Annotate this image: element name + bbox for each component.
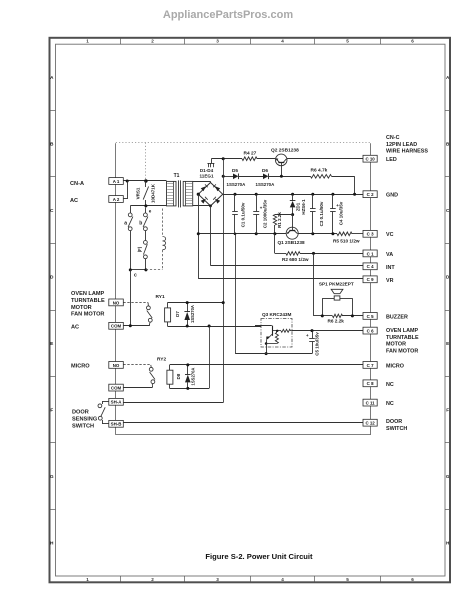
svg-text:A: A	[50, 75, 54, 80]
svg-text:SENSING: SENSING	[72, 417, 97, 423]
svg-text:F: F	[50, 407, 53, 412]
node buzzer right	[351, 314, 354, 317]
svg-text:C 8: C 8	[367, 381, 374, 386]
wire Q2 to C10	[287, 158, 363, 160]
wire primary return	[130, 205, 166, 207]
svg-text:(F): (F)	[137, 246, 142, 252]
transistor Q3 internals	[255, 325, 272, 327]
wire bridge left drop	[198, 194, 200, 279]
svg-text:C 6: C 6	[367, 329, 374, 334]
svg-text:WIRE HARNESS: WIRE HARNESS	[386, 149, 428, 155]
pin C9	[363, 276, 377, 283]
transformer T1 primary winding	[167, 181, 177, 206]
svg-text:C5 10u/35v: C5 10u/35v	[314, 332, 319, 356]
node buzzer left	[321, 314, 324, 317]
svg-text:3: 3	[216, 577, 219, 582]
wire GND rail	[223, 194, 363, 196]
wire D5 D6 line	[223, 176, 233, 178]
node RY1 bottom link	[208, 325, 211, 328]
svg-text:12PIN LEAD: 12PIN LEAD	[386, 142, 417, 148]
wire R6 to GND rail	[332, 176, 355, 178]
wire emitter return	[235, 353, 312, 355]
svg-text:4: 4	[281, 39, 284, 44]
interlock contact F	[144, 241, 148, 245]
node D7 bottom	[186, 325, 189, 328]
left connector body line CN-A/CN-B	[115, 143, 117, 435]
dotted stub to VRS1 node	[145, 143, 147, 181]
wire VC line	[198, 233, 337, 235]
svg-text:C 5: C 5	[367, 314, 374, 319]
dotted lead line top	[116, 142, 371, 144]
svg-text:6: 6	[411, 577, 414, 582]
node C3 bottom	[311, 232, 314, 235]
svg-text:H: H	[50, 540, 54, 545]
svg-text:TURNTABLE: TURNTABLE	[386, 335, 419, 341]
relay RY2 switch	[150, 365, 152, 367]
wire c junction	[130, 269, 146, 271]
svg-text:T1: T1	[174, 173, 180, 179]
svg-text:E: E	[446, 341, 449, 346]
svg-text:CN-C: CN-C	[386, 135, 400, 141]
resistor R5	[337, 232, 352, 236]
node D8 bottom	[186, 387, 189, 390]
pin C3	[363, 230, 377, 237]
capacitor C3	[312, 194, 314, 209]
svg-text:SWITCH: SWITCH	[72, 424, 94, 430]
svg-text:FAN MOTOR: FAN MOTOR	[71, 312, 104, 318]
node VC left	[197, 232, 200, 235]
svg-text:RY1: RY1	[156, 294, 165, 300]
relay RY2 coil	[167, 370, 173, 384]
wire RY2 coil top line to C7	[170, 364, 363, 366]
resistor R1 2.2k	[273, 215, 276, 226]
svg-text:BUZZER: BUZZER	[386, 314, 408, 320]
svg-text:OVEN LAMP: OVEN LAMP	[386, 328, 418, 334]
svg-text:NO: NO	[113, 300, 120, 305]
svg-text:E: E	[50, 341, 53, 346]
svg-text:c: c	[134, 273, 137, 279]
diode D7	[187, 303, 189, 312]
svg-text:5: 5	[346, 39, 349, 44]
transistor Q1	[286, 227, 298, 239]
node emitter junction	[265, 352, 268, 355]
svg-text:ZD1: ZD1	[295, 202, 300, 211]
svg-text:2: 2	[151, 39, 154, 44]
svg-text:AppliancePartsPros.com: AppliancePartsPros.com	[163, 9, 293, 21]
svg-text:10D471K: 10D471K	[151, 183, 156, 203]
zone boundary tick marks	[120, 38, 122, 44]
node buzzer tap	[312, 252, 315, 255]
capacitor C5	[312, 331, 314, 339]
wire VA line	[275, 253, 286, 255]
svg-text:COM: COM	[111, 386, 122, 391]
resistor R6 4.7k	[311, 175, 332, 179]
svg-text:C 3: C 3	[367, 232, 374, 237]
resistor R6 2.2k	[333, 314, 343, 317]
wire RY2 coil bottom line	[170, 388, 210, 390]
svg-text:SWITCH: SWITCH	[386, 426, 407, 432]
svg-text:5: 5	[346, 577, 349, 582]
wire RY1 to RY2 link	[209, 326, 211, 388]
wire A2 link	[123, 198, 127, 200]
wire C6 line	[292, 330, 363, 332]
inner border frame	[56, 44, 446, 576]
node LED line junction	[222, 157, 225, 160]
svg-text:C 7: C 7	[367, 363, 374, 368]
diode D8	[187, 365, 189, 374]
svg-text:6: 6	[411, 39, 414, 44]
svg-text:1SS270A: 1SS270A	[227, 182, 247, 187]
node D8 top	[186, 363, 189, 366]
svg-text:HZS6-1: HZS6-1	[301, 199, 306, 215]
node ZD1 bottom	[291, 213, 294, 216]
wire Q2 base drop	[281, 166, 283, 177]
bridge diode D1	[201, 186, 206, 191]
pin C8	[363, 380, 377, 387]
svg-text:TURNTABLE: TURNTABLE	[71, 298, 105, 304]
bridge diode D3	[201, 199, 206, 204]
node varistor bottom	[144, 204, 147, 207]
wire COM2 line	[123, 387, 152, 389]
svg-text:FAN MOTOR: FAN MOTOR	[386, 349, 418, 355]
zener ZD1	[292, 194, 294, 200]
svg-text:R1 2.2k: R1 2.2k	[277, 212, 282, 228]
svg-text:D6: D6	[262, 168, 268, 173]
svg-text:e: e	[149, 209, 152, 214]
wire switch a to COM	[130, 270, 132, 326]
wire buzzer loop	[322, 298, 334, 300]
node VRS1 top junction	[144, 179, 147, 182]
svg-text:NC: NC	[386, 401, 394, 407]
svg-text:1: 1	[86, 39, 89, 44]
wire VR line	[198, 278, 363, 280]
capacitor C1	[234, 194, 236, 211]
node Q2 base junction	[280, 175, 283, 178]
terminal COM lower	[109, 384, 124, 391]
svg-text:CN-A: CN-A	[70, 181, 84, 187]
svg-text:G: G	[50, 474, 54, 479]
svg-text:D7: D7	[175, 311, 180, 317]
relay RY1 switch	[147, 302, 149, 306]
resistor R4	[242, 157, 257, 161]
node bridge bottom	[209, 205, 212, 208]
svg-text:C: C	[50, 208, 54, 213]
svg-text:4: 4	[281, 577, 284, 582]
relay coil L1	[163, 237, 166, 250]
terminal SH-B	[109, 420, 124, 427]
terminal A2	[109, 196, 124, 203]
wire SH-A line	[123, 402, 223, 404]
wire LED line	[211, 158, 242, 160]
wire Q3 emitter out	[266, 344, 268, 354]
svg-text:LED: LED	[386, 157, 397, 163]
right connector body line CN-C	[370, 143, 372, 419]
pin C11	[363, 399, 377, 406]
svg-text:+: +	[306, 333, 309, 338]
svg-text:C 1: C 1	[367, 251, 374, 256]
svg-text:C 4: C 4	[367, 264, 374, 269]
wire SH-B line to C12	[123, 422, 363, 424]
svg-text:RY2: RY2	[157, 357, 166, 363]
svg-text:Q2 2SB1238: Q2 2SB1238	[271, 148, 299, 154]
buzzer SP1	[331, 289, 343, 293]
node C5 top	[311, 329, 314, 332]
wire RY1 coil top line	[167, 302, 223, 304]
svg-text:AC: AC	[70, 198, 78, 204]
svg-text:NC: NC	[386, 382, 394, 388]
terminal NO lower	[109, 362, 124, 369]
wire INT line	[211, 265, 363, 267]
wire buzzer drop	[313, 253, 315, 316]
svg-text:b: b	[139, 221, 142, 227]
pin C1	[363, 250, 377, 257]
pin C12	[363, 419, 377, 426]
svg-text:VR: VR	[386, 278, 394, 284]
svg-text:R2 680 1/2w: R2 680 1/2w	[282, 257, 309, 262]
svg-text:C 11: C 11	[366, 401, 376, 406]
wire bridge top to tap	[211, 159, 213, 164]
wire RY1 coil bottom line	[167, 326, 261, 328]
svg-text:GND: GND	[386, 193, 398, 199]
svg-text:D1-D4: D1-D4	[200, 168, 214, 173]
svg-text:COM: COM	[111, 324, 122, 329]
wire NO1 to RY1 switch	[123, 302, 148, 304]
wire bottom loop	[116, 434, 371, 436]
svg-text:A 1: A 1	[113, 179, 120, 184]
svg-text:D5: D5	[232, 168, 238, 173]
svg-text:NO: NO	[113, 363, 120, 368]
wire A1 to transformer primary	[123, 180, 166, 182]
svg-text:F: F	[446, 407, 449, 412]
svg-text:Q3 KRC243M: Q3 KRC243M	[262, 312, 292, 317]
svg-text:C1 0.1u/50v: C1 0.1u/50v	[240, 202, 245, 227]
svg-text:2: 2	[151, 577, 154, 582]
svg-text:C4 10u/35v: C4 10u/35v	[339, 201, 344, 225]
capacitor C2	[256, 194, 258, 211]
pin C7	[363, 362, 377, 369]
svg-text:C 2: C 2	[367, 192, 374, 197]
door sensing switch	[102, 401, 109, 403]
pin C6	[363, 327, 377, 334]
bridge diode D2	[215, 186, 220, 191]
svg-text:C 10: C 10	[365, 157, 375, 162]
transformer T1 secondary winding	[183, 181, 193, 206]
pin C10	[363, 155, 377, 162]
svg-text:1SS270A: 1SS270A	[190, 305, 195, 323]
node COM1 junction	[129, 324, 132, 327]
svg-text:G: G	[446, 474, 450, 479]
wire secondary bottom to bridge	[193, 205, 211, 207]
svg-text:a: a	[124, 221, 127, 227]
svg-text:VRS1: VRS1	[136, 187, 141, 199]
wire buzzer line	[314, 315, 319, 317]
svg-text:SH-A: SH-A	[111, 400, 123, 405]
svg-text:C2 1000u/35v: C2 1000u/35v	[263, 199, 268, 228]
svg-text:MOTOR: MOTOR	[71, 305, 92, 311]
svg-text:DOOR: DOOR	[72, 410, 89, 416]
wire emitter return vertical	[235, 234, 237, 354]
svg-text:DOOR: DOOR	[386, 419, 402, 425]
terminal A1	[109, 178, 124, 185]
wire bridge bottom drop	[210, 206, 212, 266]
bridge diode D4	[215, 199, 220, 204]
wire C12 loop stub	[370, 426, 372, 435]
svg-text:C3 0.1u/50v: C3 0.1u/50v	[319, 201, 324, 226]
diode D6	[263, 174, 268, 180]
wire R4 to Q2	[257, 158, 275, 160]
svg-text:1: 1	[86, 577, 89, 582]
svg-text:VA: VA	[386, 252, 393, 258]
wire VA drop	[274, 234, 276, 254]
bridge rectifier D1-D4	[198, 183, 222, 206]
svg-text:A 2: A 2	[113, 197, 120, 202]
node C1 bottom	[234, 233, 237, 236]
svg-text:MICRO: MICRO	[386, 363, 404, 369]
relay linkage dashed	[146, 269, 163, 271]
svg-text:1SS270A: 1SS270A	[256, 182, 276, 187]
svg-text:11EG1: 11EG1	[199, 174, 213, 179]
secondary tap marks TTT	[208, 163, 210, 167]
node R1 bottom	[273, 232, 276, 235]
wire main vertical rail	[223, 159, 225, 403]
svg-text:1SS270A: 1SS270A	[191, 368, 196, 386]
resistor R internal Q3	[281, 329, 291, 332]
svg-text:R6 4.7k: R6 4.7k	[311, 168, 328, 174]
wire R1 top link	[275, 214, 293, 216]
node C2 bottom	[255, 232, 258, 235]
terminal SH-A	[109, 398, 124, 405]
resistor R2	[286, 252, 300, 256]
svg-text:MICRO: MICRO	[71, 364, 90, 370]
svg-text:INT: INT	[386, 265, 395, 271]
transformer T1 core	[178, 180, 180, 207]
node GND junctions	[234, 193, 237, 196]
svg-text:SH-B: SH-B	[111, 422, 122, 427]
terminal NO upper	[109, 299, 124, 306]
svg-text:C 12: C 12	[365, 421, 375, 426]
node bridge left	[197, 193, 200, 196]
wire Q1 base	[292, 215, 294, 227]
relay RY1 coil	[165, 308, 171, 322]
switch contact a	[130, 206, 132, 213]
capacitor C4	[332, 194, 334, 209]
svg-text:3: 3	[216, 39, 219, 44]
transistor Q3 KRC243M box	[261, 319, 292, 348]
switch contact b	[145, 208, 147, 214]
svg-text:R5 510 1/2w: R5 510 1/2w	[333, 238, 360, 243]
svg-text:VC: VC	[386, 232, 394, 238]
node D5 line junction	[222, 175, 225, 178]
svg-text:Figure S-2. Power Unit Circuit: Figure S-2. Power Unit Circuit	[205, 552, 313, 561]
node C4 bottom	[331, 232, 334, 235]
svg-text:D8: D8	[176, 373, 181, 379]
pin C2	[363, 191, 377, 198]
pin C4	[363, 263, 377, 270]
node RY1 top rail junction	[222, 301, 225, 304]
svg-text:OVEN LAMP: OVEN LAMP	[71, 291, 105, 297]
svg-text:B: B	[50, 141, 54, 146]
diode D5	[233, 174, 238, 180]
svg-text:Q1 2SB1238: Q1 2SB1238	[278, 240, 305, 245]
svg-text:R4 27: R4 27	[244, 151, 257, 157]
svg-text:SP1 PKM22EPT: SP1 PKM22EPT	[319, 282, 354, 287]
wire NO2 to RY2 switch	[123, 364, 151, 366]
svg-text:MOTOR: MOTOR	[386, 342, 406, 348]
svg-text:C 9: C 9	[367, 277, 374, 282]
outer border frame	[50, 38, 451, 583]
varistor VRS1	[145, 181, 147, 187]
wire secondary top to bridge	[193, 181, 211, 183]
svg-text:AC: AC	[71, 325, 79, 331]
terminal COM upper	[109, 322, 124, 329]
pin C5	[363, 313, 377, 320]
node D7 top	[186, 301, 189, 304]
svg-text:R6 2.2k: R6 2.2k	[328, 318, 345, 323]
svg-text:D: D	[50, 274, 54, 279]
wire COM1 line	[123, 325, 149, 327]
transistor Q2	[275, 154, 287, 166]
node A1 junction	[126, 180, 129, 183]
